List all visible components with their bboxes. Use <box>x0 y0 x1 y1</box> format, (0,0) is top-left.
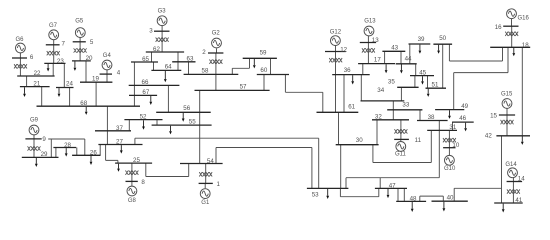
wire bus 25 to gen G8 <box>131 163 133 181</box>
wire bus 11 to gen G11 <box>400 139 402 142</box>
bus 36 <box>332 67 370 74</box>
wire bus 54 to gen G1 <box>205 164 207 184</box>
wire bus 42 to bus 41 <box>501 136 503 203</box>
load bus39 arrow <box>419 45 422 54</box>
wire bus 26 to bus 29 <box>48 139 85 157</box>
svg-text:53: 53 <box>312 191 319 198</box>
generator G11 <box>395 142 407 158</box>
svg-text:G3: G3 <box>158 9 167 15</box>
svg-text:57: 57 <box>240 83 247 90</box>
bus 49 <box>435 103 469 110</box>
wire bus 68 to bus 37 <box>106 106 108 131</box>
bus 60 <box>257 67 289 75</box>
wire bus 30 to bus 31 <box>373 130 431 162</box>
svg-text:34: 34 <box>377 87 384 94</box>
bus 19 <box>80 76 112 83</box>
generator G13 <box>364 18 376 36</box>
bus 21 <box>20 81 50 88</box>
bus 68 <box>37 100 141 107</box>
wire bus 18 to bus 50 <box>449 44 502 61</box>
wire bus 46 to bus 31 <box>452 122 454 130</box>
wire bus 45 to bus 35 <box>414 76 416 88</box>
wire bus 24 to bus 68 <box>69 88 71 107</box>
svg-text:16: 16 <box>495 24 502 31</box>
wire bus 10 to gen G10 <box>448 148 450 156</box>
bus 54 <box>180 158 223 165</box>
svg-text:50: 50 <box>439 35 446 42</box>
svg-text:31: 31 <box>449 124 456 131</box>
generator G10 <box>444 155 456 172</box>
wire bus 1 to gen G1 <box>204 183 206 188</box>
svg-text:54: 54 <box>207 158 214 165</box>
wire gen G14 to bus 14 <box>512 178 514 182</box>
wire bus 50 to bus 51 <box>442 44 444 88</box>
svg-text:G9: G9 <box>30 118 39 124</box>
bus 23 <box>44 58 65 65</box>
wire bus 47 to bus 48 b <box>403 188 405 201</box>
wire gen G9 to bus 9 <box>33 135 35 139</box>
bus 7 <box>46 40 66 47</box>
load bus17 arrow <box>385 64 388 73</box>
svg-text:26: 26 <box>90 150 97 157</box>
svg-text:6: 6 <box>30 54 34 61</box>
svg-text:30: 30 <box>356 137 363 144</box>
wire bus 35 to bus 34 <box>400 87 402 101</box>
bus 55 <box>152 119 212 126</box>
wire bus 59 to bus 60 <box>270 58 272 74</box>
svg-text:G1: G1 <box>201 200 210 206</box>
svg-text:38: 38 <box>428 114 435 121</box>
bus 6 <box>12 54 34 61</box>
bus 61 <box>317 104 359 113</box>
svg-text:22: 22 <box>34 70 41 77</box>
svg-text:63: 63 <box>187 56 194 63</box>
wire gen G13 to bus 13 <box>367 36 369 43</box>
wire bus 27 to bus 25 <box>106 145 118 164</box>
load bus64 arrow <box>164 71 167 82</box>
load bus28 arrow <box>65 148 68 157</box>
generator G3 <box>157 9 167 26</box>
bus 27 <box>98 138 142 145</box>
bus 63 <box>172 56 195 63</box>
bus 50 <box>433 35 452 44</box>
bus 24 <box>56 81 74 88</box>
bus 32 <box>372 113 409 120</box>
bus 14 <box>507 176 526 183</box>
svg-text:14: 14 <box>518 176 525 183</box>
bus 40 <box>432 194 468 201</box>
transformer T16 <box>505 32 518 36</box>
svg-text:4: 4 <box>117 70 121 77</box>
bus 38 <box>417 114 448 121</box>
svg-text:21: 21 <box>33 81 40 88</box>
transformer T2 <box>209 60 222 64</box>
svg-text:59: 59 <box>260 50 267 57</box>
bus 59 <box>243 50 277 59</box>
bus 4 <box>100 70 121 77</box>
svg-text:51: 51 <box>432 81 439 88</box>
svg-text:27: 27 <box>116 138 123 145</box>
svg-text:G11: G11 <box>395 152 407 158</box>
load bus42 arrow <box>521 136 524 145</box>
bus 58 <box>184 68 239 75</box>
generator G4 <box>102 53 112 70</box>
wire line tap to bus 47 <box>379 178 381 189</box>
wire bus 25 to bus 54 <box>146 163 189 176</box>
load bus55 arrow <box>169 126 172 135</box>
wire bus 58 to bus 59 <box>232 58 249 74</box>
wire bus 9 to bus 29 <box>33 139 35 158</box>
wire bus 33 to bus 38 <box>419 110 421 121</box>
wire bus 43 to bus 17 <box>384 51 386 63</box>
wire bus 22 to bus 21 <box>26 76 28 87</box>
transformer T1 <box>199 172 212 176</box>
wire bus 8 to gen G8 <box>131 181 133 186</box>
svg-text:39: 39 <box>418 36 425 43</box>
svg-text:60: 60 <box>260 67 267 74</box>
wire bus 65 to bus 64 <box>153 62 155 70</box>
svg-text:44: 44 <box>405 55 412 62</box>
bus 42 <box>485 133 530 140</box>
wire bus 2 to bus 58 to bus 57 <box>215 53 217 90</box>
wire bus 52 to bus 37 <box>128 120 130 131</box>
bus 1 <box>199 181 221 188</box>
load bus53 arrow <box>326 189 329 199</box>
wire bus 5 to bus 20 <box>79 42 81 61</box>
bus 28 <box>53 142 76 149</box>
bus 18 <box>490 42 530 49</box>
load bus52 arrow <box>142 120 145 129</box>
bus 20 <box>72 55 93 62</box>
bus 26 <box>72 150 100 157</box>
svg-text:29: 29 <box>41 151 48 158</box>
svg-text:19: 19 <box>92 76 99 83</box>
wire bus 34 to bus 33 <box>392 101 394 110</box>
wire bus 63 to bus 58 <box>188 62 190 75</box>
load bus36 arrow <box>351 75 354 84</box>
wire gen G7 to bus 7 <box>53 40 55 45</box>
svg-text:G6: G6 <box>15 37 24 43</box>
transformer T3 <box>156 38 169 42</box>
wire gen G3 to bus 3 <box>161 26 163 32</box>
wire bus 53 to bus 47 <box>340 188 378 196</box>
svg-text:64: 64 <box>165 64 172 71</box>
wire bus 12 to bus 36 <box>335 52 337 75</box>
svg-text:62: 62 <box>153 46 160 53</box>
bus 30 <box>336 137 379 145</box>
bus 5 <box>73 39 94 46</box>
wire bus 21 to bus 68 <box>41 87 43 107</box>
wire bus 67 to bus 68 <box>133 95 135 106</box>
load bus18 arrow <box>512 48 515 56</box>
bus 46 <box>452 115 474 122</box>
svg-text:G14: G14 <box>505 162 517 168</box>
wire gen G15 to bus 15 <box>506 109 508 116</box>
wire bus 62 to bus 63 <box>177 52 179 62</box>
wire bus 18 to bus 49 <box>454 47 508 109</box>
wire bus 31 to bus 53 <box>346 130 439 188</box>
load bus59 arrow <box>253 59 256 69</box>
svg-text:20: 20 <box>86 55 93 62</box>
load bus27 arrow <box>120 145 123 154</box>
svg-text:56: 56 <box>183 105 190 112</box>
bus 33 <box>387 101 422 109</box>
wire bus 37 to bus 27 <box>106 131 108 145</box>
transformer T9 <box>28 146 41 150</box>
svg-text:3: 3 <box>149 28 153 35</box>
svg-text:G12: G12 <box>330 30 342 36</box>
bus 15 <box>490 112 515 119</box>
wire bus 56 to bus 55 <box>199 112 201 125</box>
svg-text:11: 11 <box>415 137 422 144</box>
svg-text:68: 68 <box>80 100 87 107</box>
wire bus 52 to bus 55 <box>156 120 158 126</box>
bus 8 <box>126 179 146 186</box>
wire bus 39 to bus 44 <box>409 44 411 64</box>
load bus47 arrow <box>387 189 390 198</box>
wire bus 40 to bus 41 <box>454 188 501 201</box>
svg-text:58: 58 <box>202 68 209 75</box>
wire bus 60 to bus 61 <box>285 75 322 113</box>
generator G5 <box>75 19 85 38</box>
generator G12 <box>330 30 342 46</box>
wire gen G2 to bus 2 <box>216 49 218 54</box>
load bus46 arrow <box>464 123 467 132</box>
bus 31 <box>427 124 457 131</box>
wire bus 63 to bus 64 <box>177 62 179 71</box>
generator G2 <box>212 31 222 48</box>
generator G6 <box>15 37 25 53</box>
bus 22 <box>17 70 54 77</box>
bus 39 <box>409 36 431 44</box>
svg-text:15: 15 <box>490 112 497 119</box>
wire bus 44 to bus 45 <box>415 64 417 76</box>
bus 53 <box>307 188 349 198</box>
wire bus 13 to bus 17 <box>367 43 369 64</box>
svg-text:8: 8 <box>141 179 145 186</box>
svg-text:47: 47 <box>389 182 396 189</box>
wire bus 23 to bus 22 <box>52 63 54 76</box>
generator G7 <box>49 23 59 40</box>
transformer T14 <box>507 189 520 193</box>
svg-text:5: 5 <box>90 39 94 46</box>
svg-text:48: 48 <box>410 195 417 202</box>
load bus26 arrow <box>90 156 93 165</box>
wire bus 66 to bus 67 <box>133 85 135 95</box>
bus 48 <box>396 195 426 202</box>
svg-text:G16: G16 <box>518 15 530 21</box>
svg-text:52: 52 <box>140 113 147 120</box>
svg-text:10: 10 <box>452 142 459 149</box>
load bus40 arrow <box>443 202 446 212</box>
svg-text:2: 2 <box>202 49 206 56</box>
wire bus 32 to bus 30 <box>376 120 378 145</box>
bus 3 <box>149 28 169 35</box>
load bus51 arrow <box>427 89 430 97</box>
svg-text:35: 35 <box>388 78 395 85</box>
load bus48 arrow <box>411 202 414 212</box>
bus 37 <box>95 125 131 132</box>
bus 9 <box>25 136 46 143</box>
svg-text:9: 9 <box>42 136 46 143</box>
wire bus 54 to bus 53 <box>216 148 312 189</box>
svg-text:G5: G5 <box>75 19 84 25</box>
bus 47 <box>375 182 407 189</box>
wire bus 17 to bus 36 <box>362 64 364 75</box>
wire bus 43 to bus 44 <box>400 51 402 64</box>
svg-text:43: 43 <box>391 44 398 51</box>
wire gen G12 to bus 12 <box>335 46 337 52</box>
bus 45 <box>410 70 434 77</box>
transformer T6 <box>14 64 27 68</box>
transformer T10 <box>443 138 456 142</box>
bus 66 <box>129 79 180 86</box>
wire bus 48 to bus 40 <box>420 196 444 201</box>
wire bus 61 to bus 30 <box>338 112 340 144</box>
load bus56 arrow <box>182 113 185 122</box>
svg-text:67: 67 <box>142 89 149 96</box>
wire bus 33 to bus 32 <box>392 110 394 120</box>
bus 43 <box>382 44 405 51</box>
svg-text:17: 17 <box>374 57 381 64</box>
wire bus 36 to bus 61 a <box>335 75 337 113</box>
bus 67 <box>129 89 157 96</box>
load bus50 arrow <box>437 45 440 54</box>
bus 25 <box>115 157 152 164</box>
svg-text:37: 37 <box>116 125 123 132</box>
bus 56 <box>156 105 211 112</box>
bus 51 <box>426 81 447 88</box>
svg-text:40: 40 <box>447 194 454 201</box>
load bus44 arrow <box>400 64 403 73</box>
svg-text:49: 49 <box>461 103 468 110</box>
transformer T8 <box>125 171 138 175</box>
bus 44 <box>396 55 417 63</box>
transformer T15 <box>501 120 514 124</box>
svg-text:25: 25 <box>133 157 140 164</box>
load bus24 arrow <box>58 88 61 97</box>
wire bus 65 to bus 66 <box>133 62 135 85</box>
generator G1 <box>200 189 210 206</box>
generator G8 <box>127 186 137 204</box>
load bus20 arrow <box>74 62 77 71</box>
wire bus 4 to bus 19 <box>106 74 108 82</box>
wire bus 36 to bus 34 <box>360 75 362 101</box>
wire bus 62 to bus 65 <box>151 52 153 62</box>
wire gen G5 to bus 5 <box>79 38 81 42</box>
load bus45 arrow <box>421 76 424 84</box>
wire bus 31 to gen G10 <box>448 130 450 147</box>
bus 64 <box>151 64 181 71</box>
wire bus 36 to bus 61 b <box>343 75 345 113</box>
wire bus 19 to bus 68 <box>95 82 97 106</box>
load bus67 arrow <box>149 96 152 105</box>
wire bus 20 to bus 19 <box>85 61 87 82</box>
svg-text:55: 55 <box>189 119 196 126</box>
generator G9 <box>29 118 39 135</box>
wire bus 15 to bus 42 <box>506 115 508 136</box>
wire gen G6 to bus 6 <box>19 53 21 58</box>
bus 13 <box>360 37 379 44</box>
svg-text:24: 24 <box>66 81 73 88</box>
svg-text:12: 12 <box>340 46 347 53</box>
wire bus 45 to bus 51 <box>427 76 429 89</box>
wire gen G16 to bus 16 <box>511 19 513 27</box>
bus 11 <box>394 137 421 144</box>
bus 41 <box>494 197 523 204</box>
bus 52 <box>124 113 162 120</box>
wire bus 18 to bus 42 <box>521 47 523 136</box>
generator G14 <box>505 162 517 178</box>
wire bus 57 to bus 56 <box>199 90 201 112</box>
svg-text:G4: G4 <box>103 53 112 59</box>
transformer T12 <box>329 58 342 62</box>
wire bus 28 to bus 26 <box>76 148 78 156</box>
svg-text:41: 41 <box>515 197 522 204</box>
svg-text:13: 13 <box>372 37 379 44</box>
svg-text:32: 32 <box>375 113 382 120</box>
bus 65 <box>131 56 158 63</box>
load bus29 arrow <box>35 158 38 167</box>
wire bus 6 to bus 22 <box>19 58 21 76</box>
svg-text:1: 1 <box>217 181 221 188</box>
wire bus 30 to bus 53 <box>340 145 342 189</box>
bus 35 <box>388 78 419 87</box>
wire bus 66 to bus 56 <box>167 85 169 112</box>
load bus25 arrow <box>117 164 120 172</box>
generator G15 <box>501 91 513 108</box>
wire bus 7 to bus 23 <box>53 45 55 64</box>
svg-text:23: 23 <box>57 58 64 65</box>
svg-text:G10: G10 <box>444 166 456 172</box>
svg-text:28: 28 <box>64 142 71 149</box>
bus 57 <box>195 83 270 90</box>
wire bus 38 to bus 31 <box>438 121 440 131</box>
svg-text:G7: G7 <box>49 23 58 29</box>
svg-text:G15: G15 <box>501 91 513 97</box>
wire bus 60 to bus 57 <box>263 75 265 91</box>
wire bus 3 to bus 62 <box>161 31 163 52</box>
svg-text:G8: G8 <box>128 198 137 204</box>
svg-text:46: 46 <box>459 115 466 122</box>
svg-text:33: 33 <box>402 101 409 108</box>
svg-text:18: 18 <box>522 42 529 49</box>
wire bus 14 to bus 41 <box>512 182 514 204</box>
load bus23 arrow <box>47 64 50 72</box>
bus 10 <box>443 142 460 149</box>
svg-text:66: 66 <box>142 79 149 86</box>
wire bus 28 to bus 29 <box>55 148 57 158</box>
load bus68 arrow <box>85 107 88 115</box>
transformer T5 <box>74 48 87 52</box>
svg-text:65: 65 <box>142 56 149 63</box>
bus 29 <box>22 151 59 158</box>
transformer T7 <box>47 51 60 55</box>
transformer T11 <box>394 129 407 133</box>
wire gen G4 to bus 4 <box>106 70 108 74</box>
svg-text:36: 36 <box>344 67 351 74</box>
wire bus 47 to bus 48 a <box>397 188 399 201</box>
bus 62 <box>146 46 184 53</box>
bus 12 <box>325 46 348 53</box>
svg-text:G13: G13 <box>364 18 376 24</box>
svg-text:G2: G2 <box>212 31 221 37</box>
generator G16 <box>507 9 530 22</box>
wire bus 27 to bus 53 <box>135 138 319 188</box>
wire bus 55 to bus 54 <box>199 125 201 163</box>
svg-text:7: 7 <box>62 40 66 47</box>
load bus49 arrow <box>448 110 451 119</box>
